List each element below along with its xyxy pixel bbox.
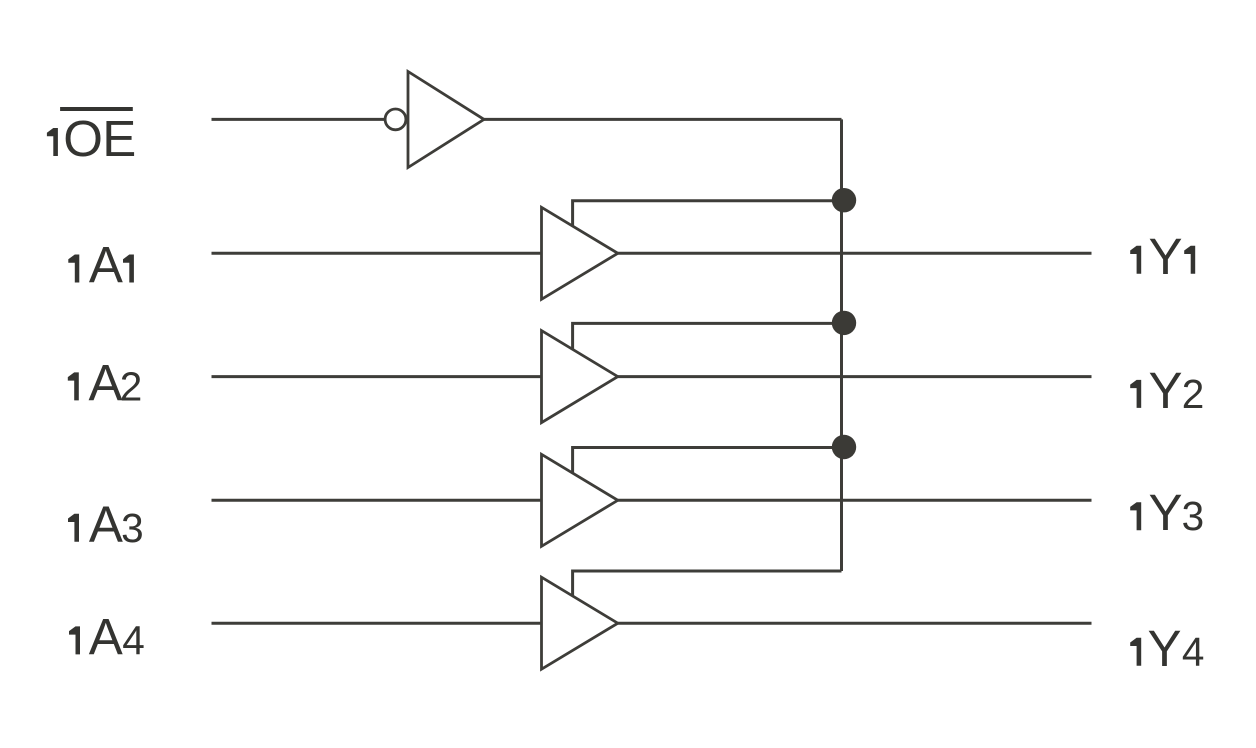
inverter U1 input bubble	[385, 109, 406, 130]
wire 1Y3 output	[618, 499, 1092, 502]
svg-text:2: 2	[1182, 371, 1205, 417]
net label 1Y1	[1130, 228, 1195, 285]
wire enable stub buffer 3	[573, 448, 842, 474]
wire inverter output	[484, 118, 842, 121]
buffer U4 triangle	[542, 454, 618, 546]
svg-text:Y: Y	[1148, 620, 1182, 677]
wire 1A1 input	[212, 252, 542, 255]
net label 1Y3	[1130, 484, 1204, 541]
wire 1OE input	[212, 118, 385, 121]
svg-text:A: A	[89, 237, 123, 294]
wire 1Y2 output	[618, 375, 1092, 378]
net label 1A2	[68, 354, 142, 411]
wire enable stub buffer 4	[573, 571, 842, 596]
junction dot row 2	[832, 311, 856, 335]
svg-text:Y: Y	[1149, 484, 1183, 541]
wire 1Y1 output	[618, 252, 1092, 255]
net label 1Y2	[1130, 362, 1204, 419]
svg-text:A: A	[89, 354, 123, 411]
net label 1A4	[69, 608, 145, 665]
svg-text:Y: Y	[1149, 228, 1183, 285]
wire enable stub buffer 2	[573, 323, 842, 349]
svg-text:3: 3	[121, 505, 144, 551]
wire 1A3 input	[212, 499, 542, 502]
net label 1A3	[68, 496, 144, 553]
svg-text:Y: Y	[1149, 362, 1183, 419]
wire enable stub buffer 1	[573, 201, 842, 227]
svg-text:E: E	[102, 110, 136, 167]
svg-text:O: O	[63, 110, 103, 167]
inverter U1 triangle	[408, 72, 484, 168]
svg-text:A: A	[89, 608, 123, 665]
wire 1Y4 output	[618, 622, 1092, 625]
svg-text:4: 4	[122, 617, 145, 663]
net label 1OE	[47, 110, 136, 167]
svg-text:3: 3	[1182, 493, 1205, 539]
svg-text:4: 4	[1182, 629, 1205, 675]
junction dot row 1	[832, 188, 856, 212]
svg-text:2: 2	[120, 363, 143, 409]
net label 1A1	[68, 237, 134, 294]
buffer U5 triangle	[542, 577, 618, 669]
svg-text:A: A	[89, 496, 123, 553]
junction dot row 3	[832, 435, 856, 459]
wire 1A2 input	[212, 375, 542, 378]
buffer U2 triangle	[542, 207, 618, 299]
buffer U3 triangle	[542, 331, 618, 423]
wire 1A4 input	[212, 622, 542, 625]
net label 1Y4	[1130, 620, 1204, 677]
overline of 1OE	[60, 107, 133, 111]
wire enable bus vertical	[840, 119, 843, 571]
